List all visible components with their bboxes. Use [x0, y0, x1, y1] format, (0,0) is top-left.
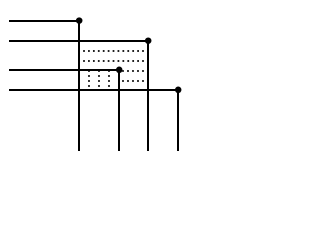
junction dot D3 — [116, 67, 123, 74]
junction dot D2 — [145, 37, 152, 44]
wire V1 (vertical line from D1) — [78, 20, 80, 151]
wire L1 (top horizontal line) — [9, 20, 80, 22]
sparse dot grid row 4 — [88, 85, 110, 87]
wire L3 (third horizontal line) — [9, 69, 118, 71]
wire L2 (second horizontal line) — [9, 40, 147, 42]
junction dot D1 — [76, 17, 83, 24]
sparse dot grid row 1 (vertical ellipses between V1 and V3) — [88, 70, 110, 72]
wire L4 (bottom horizontal line) — [9, 89, 177, 91]
dotted row B (between L2 and L3, spanning V1 to V2) — [83, 60, 144, 62]
junction dot D4 — [175, 87, 182, 94]
dotted continuation of L3 toward V2 — [122, 70, 144, 72]
dotted row C (between L3 and L4, right of V3) — [122, 80, 144, 82]
dotted row A (between L2 and L3, spanning V1 to V2) — [83, 50, 144, 52]
wire V2 (vertical line from D2) — [147, 40, 149, 151]
sparse dot grid row 2 — [88, 75, 110, 77]
wire V3 (vertical line from D3) — [118, 69, 120, 151]
sparse dot grid row 3 — [88, 80, 110, 82]
wire V4 (vertical line from D4) — [177, 89, 179, 151]
